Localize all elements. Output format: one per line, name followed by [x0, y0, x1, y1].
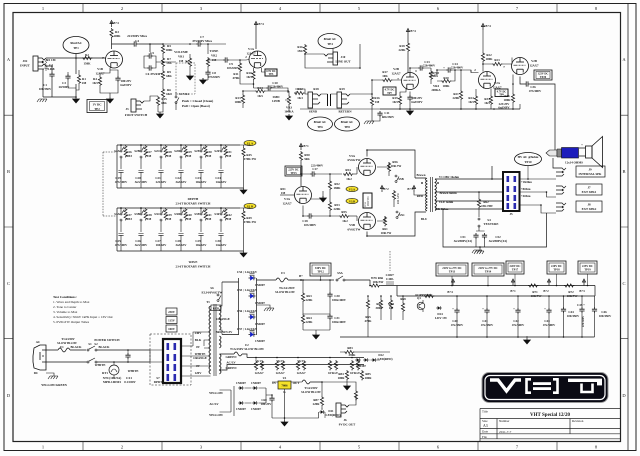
ground arrow reservoir [313, 333, 320, 339]
B+ arrow [406, 29, 409, 36]
resistor R67 [379, 299, 382, 309]
svg-text:WAVE: WAVE [189, 260, 198, 264]
svg-text:HV AC @8ohm: HV AC @8ohm [518, 155, 539, 159]
svg-text:J7: J7 [587, 186, 591, 190]
wire B+ to plate [256, 28, 258, 49]
pot VR5 [389, 299, 392, 309]
capacitor C7 [196, 41, 202, 46]
capacitor C44 [561, 307, 566, 313]
svg-text:47x/500V: 47x/500V [543, 323, 556, 327]
svg-text:R2: R2 [85, 53, 89, 57]
diode D7 [249, 315, 256, 320]
svg-text:S2B: S2B [134, 149, 139, 153]
svg-text:S1: S1 [88, 342, 92, 346]
svg-text:SLOW BLOW: SLOW BLOW [275, 290, 296, 294]
tube V5B [359, 213, 376, 230]
resistor R36 [511, 93, 514, 103]
switch S2E column [198, 144, 207, 188]
svg-text:12AX7: 12AX7 [275, 371, 285, 375]
switch S2A column [118, 144, 127, 188]
svg-text:56K: 56K [304, 157, 310, 161]
svg-text:100V: 100V [168, 327, 176, 331]
svg-text:C54 | 1.2n/1KV: C54 | 1.2n/1KV [237, 270, 258, 274]
svg-text:J3: J3 [125, 107, 129, 111]
switch S5B [395, 175, 399, 183]
svg-text:RT1: RT1 [102, 371, 108, 375]
svg-text:V2A: V2A [494, 81, 501, 85]
resistor R14 [255, 89, 265, 92]
svg-text:B+3: B+3 [407, 187, 413, 191]
capacitor C3 [65, 74, 70, 80]
svg-text:6n3NPV: 6n3NPV [498, 106, 510, 110]
svg-text:3n3/63V: 3n3/63V [175, 243, 187, 247]
diode D15 [238, 401, 244, 405]
B+2 arrow rail [547, 279, 550, 286]
wire heater bus [220, 358, 365, 371]
svg-text:220/400V: 220/400V [451, 66, 464, 70]
svg-text:AC/LV: AC/LV [226, 361, 236, 365]
svg-text:100K: 100K [165, 48, 173, 52]
svg-text:TP20: TP20 [540, 76, 547, 79]
svg-text:10R/7W: 10R/7W [531, 294, 543, 298]
svg-text:23-6T ROTARY SWITCH: 23-6T ROTARY SWITCH [176, 202, 211, 206]
svg-text:J10: J10 [341, 55, 346, 59]
svg-text:BLK: BLK [195, 338, 202, 342]
svg-text:C45 +: C45 + [577, 303, 585, 307]
svg-text:12AX7: 12AX7 [246, 52, 256, 56]
svg-text:VR1: VR1 [178, 55, 184, 59]
svg-text:100K: 100K [485, 57, 493, 61]
svg-text:100K: 100K [442, 84, 450, 88]
svg-text:684/250V: 684/250V [382, 115, 395, 119]
svg-text:V1 OB2 16ohm: V1 OB2 16ohm [439, 175, 460, 179]
svg-text:1K5: 1K5 [468, 100, 474, 104]
jack J8 [556, 203, 566, 211]
wire grid V5A [356, 167, 358, 174]
node V1.B yellow tag [244, 203, 256, 208]
svg-text:1M: 1M [187, 217, 192, 221]
svg-text:RED: RED [417, 194, 424, 198]
capacitor C2 [45, 65, 48, 72]
ground hatched [364, 121, 374, 124]
svg-text:B+3: B+3 [579, 289, 585, 293]
switch S2D column [178, 144, 187, 188]
svg-text:200KA: 200KA [431, 88, 441, 92]
svg-text:TP7: TP7 [387, 92, 392, 95]
svg-text:TP4: TP4 [327, 42, 333, 46]
svg-text:10R.7W: 10R.7W [381, 231, 393, 235]
switch S2B column [138, 144, 147, 188]
svg-text:1V DC: 1V DC [93, 103, 102, 107]
resistor R45 [242, 147, 245, 157]
svg-text:S3F: S3F [214, 212, 219, 216]
svg-text:1M: 1M [207, 154, 212, 158]
svg-text:R23: R23 [494, 58, 500, 62]
resistor R23 [492, 62, 502, 65]
svg-text:15K HW: 15K HW [481, 204, 494, 208]
transformer PT1 [209, 304, 221, 376]
heater drop V5A [328, 360, 331, 370]
svg-text:LDV 1W: LDV 1W [435, 316, 448, 320]
diode D13b [363, 358, 369, 362]
svg-text:Pull = Open (Boost): Pull = Open (Boost) [182, 104, 210, 108]
resistor R56 screen [387, 162, 390, 172]
svg-text:+: + [544, 307, 546, 311]
svg-text:T1A/250V SLOW BLOW: T1A/250V SLOW BLOW [230, 347, 265, 351]
svg-text:470K: 470K [232, 76, 240, 80]
switch S3C column [158, 207, 167, 251]
svg-text:10R/7W: 10R/7W [567, 294, 579, 298]
svg-text:222/63V: 222/63V [156, 180, 168, 184]
jack J4 send [308, 92, 321, 108]
svg-text:0.1/450V: 0.1/450V [124, 380, 136, 384]
ground arrow bias [344, 384, 351, 390]
svg-text:80mF AC: 80mF AC [341, 120, 354, 124]
svg-text:1K5: 1K5 [92, 81, 98, 85]
svg-text:47x/500V: 47x/500V [582, 316, 585, 327]
svg-text:S2E: S2E [194, 149, 199, 153]
svg-text:223/500V Mica: 223/500V Mica [127, 34, 147, 38]
wire lower bus [43, 66, 76, 97]
wire V5A plate to OT [367, 150, 426, 178]
svg-text:B+2: B+2 [543, 289, 549, 293]
tube V3B [512, 58, 529, 75]
test point TP6 oval [308, 117, 333, 131]
svg-text:1M: 1M [179, 59, 184, 63]
svg-text:A3: A3 [483, 424, 488, 428]
svg-text:R14: R14 [257, 86, 263, 90]
svg-text:Number: Number [499, 419, 510, 423]
svg-text:12AX7: 12AX7 [529, 64, 539, 68]
svg-text:LED(RED): LED(RED) [326, 413, 341, 417]
B+3 arrow rail [582, 279, 585, 286]
svg-text:1K5: 1K5 [392, 100, 398, 104]
svg-text:1. Wave and Depth to Max: 1. Wave and Depth to Max [53, 300, 90, 304]
svg-text:7806: 7806 [281, 384, 288, 388]
resistor R50 [299, 151, 302, 161]
svg-text:2M: 2M [82, 81, 87, 85]
svg-text:80mF AC: 80mF AC [314, 120, 327, 124]
capacitor C6 [147, 65, 153, 70]
ground arrow LV [281, 420, 288, 426]
resistor R53 [328, 201, 331, 211]
svg-text:S3E: S3E [194, 212, 199, 216]
svg-text:C17: C17 [312, 167, 318, 171]
svg-text:BROWN-5V: BROWN-5V [216, 330, 234, 334]
resistor R72 rail [564, 284, 574, 287]
bottom bus wire [380, 108, 520, 110]
connector block impedance [503, 172, 520, 211]
svg-text:1: 1 [42, 445, 44, 450]
wire grid V5B [356, 216, 358, 221]
svg-text:103/630V: 103/630V [227, 66, 240, 70]
svg-text:3n3/100V: 3n3/100V [135, 180, 148, 184]
speaker symbol [579, 137, 603, 168]
capacitor cathode bypass [407, 95, 412, 101]
svg-text:100n/400V: 100n/400V [332, 298, 347, 302]
svg-text:RETURN: RETURN [338, 110, 352, 114]
wire depth bus top [117, 144, 240, 146]
switch S2F column [218, 144, 227, 188]
resistor R54 [343, 172, 353, 175]
wire wave bus top [117, 207, 240, 209]
standby caps dashed [389, 251, 391, 271]
svg-text:S2F: S2F [214, 149, 219, 153]
svg-text:10n/63V: 10n/63V [195, 180, 207, 184]
T [568, 379, 602, 382]
resistor R52 [328, 180, 331, 190]
wire tone joins [163, 54, 176, 88]
svg-text:TP15: TP15 [290, 172, 297, 175]
AC inlet plug [33, 345, 46, 370]
svg-text:B+: B+ [299, 274, 303, 278]
wire rail upper [397, 286, 595, 297]
svg-text:TP8: TP8 [344, 125, 350, 129]
svg-text:TP10: TP10 [524, 160, 532, 164]
svg-text:240V: 240V [195, 331, 203, 335]
svg-text:S1/VR2: S1/VR2 [179, 92, 190, 96]
wire plate out [112, 43, 133, 45]
svg-text:40R AS50: 40R AS50 [397, 193, 400, 204]
speaker plug [546, 148, 579, 159]
svg-text:C55 | 1.2n/1KV: C55 | 1.2n/1KV [237, 288, 258, 292]
switch S2C column [158, 144, 167, 188]
svg-text:V3.B: V3.B [349, 200, 355, 203]
svg-text:TP2: TP2 [94, 107, 100, 111]
svg-text:47x/500V: 47x/500V [512, 323, 525, 327]
test point TP10 oval [515, 153, 542, 166]
svg-text:10n/63V: 10n/63V [195, 243, 207, 247]
tube V2B [402, 73, 419, 90]
svg-text:1K3: 1K3 [297, 96, 303, 100]
svg-text:V1A: V1A [248, 47, 255, 51]
node V1.A yellow tag [244, 140, 256, 145]
svg-text:T1: T1 [206, 300, 210, 304]
test point box TP2 [87, 100, 107, 113]
svg-text:YELLOW/GREEN: YELLOW/GREEN [41, 383, 68, 387]
svg-text:+4Ohm: +4Ohm [521, 194, 531, 198]
svg-text:47x/450V: 47x/450V [481, 323, 494, 327]
resistor R69 [424, 294, 434, 297]
svg-text:TP1: TP1 [73, 46, 79, 50]
svg-text:100/450V: 100/450V [599, 314, 612, 318]
svg-text:B+4: B+4 [485, 24, 491, 28]
diode D13 [355, 358, 361, 362]
ground hatched mains [48, 376, 58, 379]
svg-text:6V6GT: 6V6GT [350, 371, 361, 375]
resistor R19 cathode [398, 95, 401, 105]
svg-text:100/450V: 100/450V [567, 314, 580, 318]
svg-text:TP17: TP17 [512, 269, 519, 272]
svg-text:470K 5W: 470K 5W [244, 220, 257, 224]
resistor R61 [383, 216, 386, 226]
wire HT feeds [222, 278, 257, 335]
capacitor C36 [524, 81, 530, 86]
resistor R63 [301, 292, 304, 302]
svg-text:230V: 230V [168, 310, 176, 314]
resistor R85 [360, 370, 363, 380]
resistor R7 [161, 57, 164, 67]
svg-text:473/100V: 473/100V [115, 243, 128, 247]
svg-text:TP5: TP5 [269, 73, 274, 76]
svg-text:TP11: TP11 [364, 201, 367, 207]
svg-text:Push = Closed (Clean): Push = Closed (Clean) [182, 99, 213, 103]
svg-text:F3: F3 [281, 271, 285, 275]
svg-text:12AX7: 12AX7 [391, 72, 401, 76]
svg-text:S3D: S3D [174, 212, 180, 216]
svg-text:1N4007: 1N4007 [236, 407, 246, 411]
capacitor C13 [418, 65, 424, 70]
ground arrow PI [320, 196, 327, 202]
resistor R71 rail [528, 284, 538, 287]
svg-text:TP14: TP14 [485, 271, 492, 274]
svg-text:R1 1M: R1 1M [46, 58, 55, 62]
capacitor C9 [223, 57, 229, 62]
pot VR4 [429, 70, 432, 80]
svg-text:300K: 300K [375, 306, 383, 310]
test point TP18 box [547, 261, 566, 274]
test point TP15 box [285, 166, 302, 176]
svg-text:POWER SWITCH: POWER SWITCH [94, 338, 120, 342]
ground arrow volume [187, 74, 194, 80]
svg-text:104/63V: 104/63V [156, 243, 168, 247]
svg-text:R55: R55 [341, 210, 347, 214]
svg-text:15K: 15K [166, 61, 172, 65]
svg-text:V2: V2 [278, 359, 282, 363]
svg-text:3. Volume to Max: 3. Volume to Max [53, 310, 78, 314]
svg-text:1K5: 1K5 [484, 101, 490, 105]
svg-text:225V DC: 225V DC [582, 265, 593, 268]
wire depth bus bottom [117, 145, 244, 188]
svg-text:475/500V Mica: 475/500V Mica [192, 39, 212, 43]
svg-text:C5: C5 [150, 51, 154, 55]
thermistor RT1 [109, 365, 119, 375]
resistor R16b [370, 96, 373, 106]
switch S3B column [138, 207, 147, 251]
capacitor C51 [473, 233, 478, 239]
test point TP14 box [472, 263, 504, 276]
jack J3 [131, 99, 144, 112]
svg-text:C6 475/630V: C6 475/630V [146, 72, 164, 76]
svg-text:12AX7: 12AX7 [282, 202, 292, 206]
svg-text:B+4: B+4 [258, 22, 264, 26]
transformer T1 [426, 177, 437, 212]
capacitor C40 [454, 308, 459, 314]
test point TP4 oval [318, 34, 342, 49]
resistor R55 [339, 214, 349, 217]
resistor R17 grid [382, 78, 392, 81]
right zone band line [627, 4, 629, 451]
wire input bus [43, 58, 106, 97]
svg-text:12x14 OHMS: 12x14 OHMS [565, 161, 583, 165]
switch S3D column [178, 207, 187, 251]
svg-text:220K: 220K [305, 298, 313, 302]
wire V5B plate to OT [367, 212, 426, 236]
switch S5C [396, 211, 400, 219]
fuse F3 [276, 278, 288, 282]
svg-text:DC: DC [34, 371, 38, 375]
svg-text:B+4: B+4 [410, 29, 416, 33]
capacitor C31b [327, 314, 332, 320]
svg-text:EXT SPK2: EXT SPK2 [582, 207, 597, 211]
wire 4ohm tap [435, 200, 503, 202]
resistor R84 [345, 370, 348, 380]
svg-text:B+2: B+2 [383, 187, 389, 191]
svg-text:V1B: V1B [97, 67, 103, 71]
svg-text:File: File [482, 435, 488, 439]
svg-text:+: + [513, 307, 515, 311]
svg-text:+: + [581, 143, 583, 147]
svg-text:100K: 100K [113, 34, 121, 38]
svg-text:1N4007: 1N4007 [255, 301, 265, 305]
svg-text:TP12: TP12 [317, 270, 324, 274]
diode D5 [249, 276, 256, 281]
svg-text:100/350V: 100/350V [39, 87, 52, 91]
svg-text:390K: 390K [348, 353, 356, 357]
svg-text:R83: R83 [347, 346, 353, 350]
ground hatched snubber [474, 251, 484, 254]
resistor R5 [161, 44, 164, 54]
test point TP20 box [534, 70, 552, 80]
svg-text:Revision: Revision [572, 419, 584, 423]
capacitor C5 [147, 53, 153, 58]
test point TP1 oval [63, 37, 89, 54]
resistor R13 [241, 94, 244, 104]
svg-text:5. 6V6GTW Output Tubes: 5. 6V6GTW Output Tubes [53, 320, 90, 324]
svg-text:115V: 115V [168, 318, 175, 322]
switch S1/VR2 [175, 96, 179, 104]
diode D16 [252, 401, 258, 405]
svg-text:10R.7W: 10R.7W [391, 164, 403, 168]
svg-text:47x/450V: 47x/450V [451, 323, 464, 327]
LED D12 [371, 358, 377, 362]
hatched ground top [472, 250, 482, 253]
svg-text:14n/63V: 14n/63V [215, 243, 227, 247]
capacitor CX1 [125, 353, 130, 359]
jack J7 [556, 186, 566, 194]
svg-text:S3C: S3C [154, 212, 160, 216]
svg-text:B+4: B+4 [113, 21, 119, 25]
resistor R1 [77, 74, 80, 84]
capacitor C60 [269, 396, 274, 402]
wires HT secondary [220, 282, 223, 335]
resistor R24 [474, 95, 477, 105]
svg-text:6n3NPV: 6n3NPV [411, 100, 423, 104]
ground hatched rect [264, 308, 274, 311]
svg-text:SLOW BLOW: SLOW BLOW [301, 390, 322, 394]
svg-text:WHITE: WHITE [128, 369, 139, 373]
svg-text:20/500V: 20/500V [59, 85, 71, 89]
svg-text:1N4007: 1N4007 [255, 322, 265, 326]
svg-text:1K2: 1K2 [342, 219, 348, 223]
svg-text:100K: 100K [234, 100, 242, 104]
resistor R58 [392, 190, 395, 200]
wires selector to PT [193, 332, 211, 376]
ground arrow [73, 97, 80, 103]
svg-text:R18: R18 [313, 87, 319, 91]
connector S7 DPDT [163, 339, 181, 383]
resistor R68 [401, 302, 404, 312]
svg-text:14n/63V: 14n/63V [215, 180, 227, 184]
svg-text:S3A: S3A [114, 212, 120, 216]
resistor R62 [477, 198, 480, 208]
heater drop V5B [350, 360, 353, 370]
wire to tone [138, 44, 163, 52]
svg-text:4M3: 4M3 [126, 217, 132, 221]
wire rail to standby [301, 279, 334, 281]
resistor R6 [161, 88, 164, 98]
svg-text:YELLOW: YELLOW [209, 391, 224, 395]
